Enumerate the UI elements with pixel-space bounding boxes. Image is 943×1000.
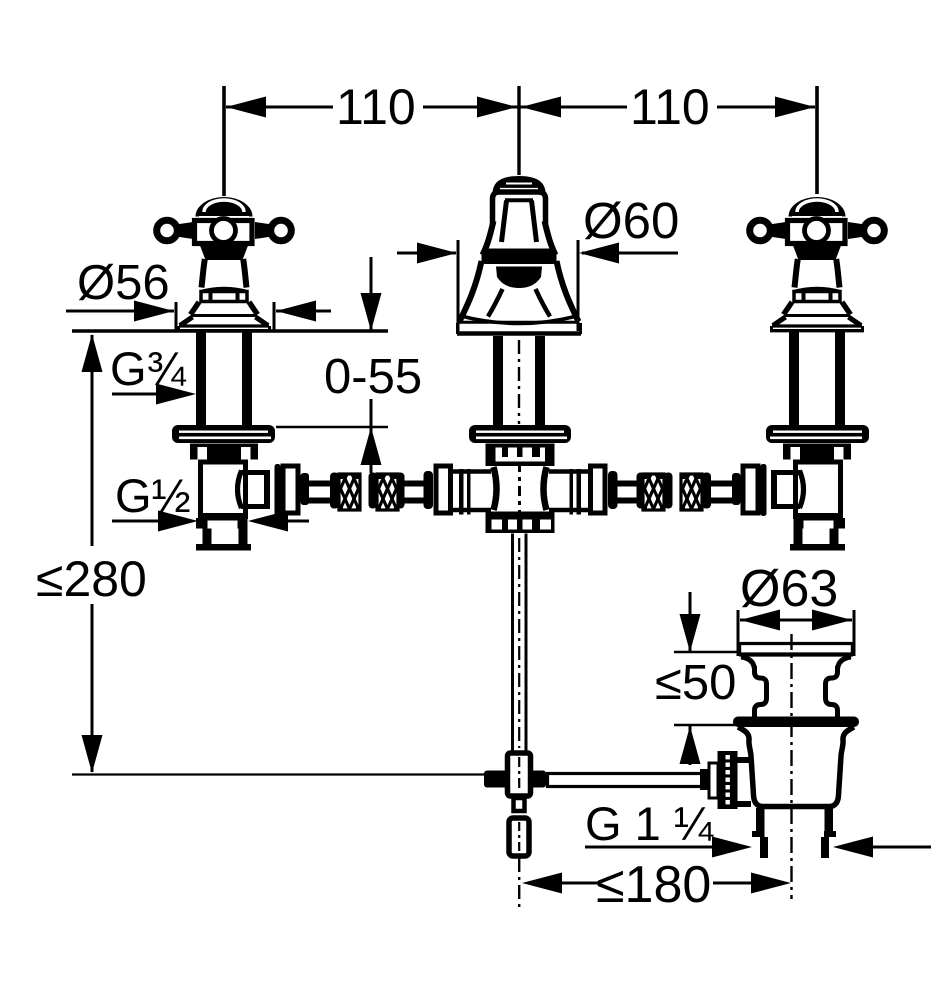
deck line [72, 329, 388, 333]
arrowheads 60 [417, 243, 457, 264]
lever bar [548, 774, 715, 787]
arrowheads 63 [740, 610, 780, 631]
arrowheads G1 1/4 [712, 837, 752, 858]
left handle (cross handle) [157, 197, 292, 331]
spout base [461, 316, 577, 324]
waste shoulder left [741, 657, 755, 669]
dimension 110 right: extension line [815, 86, 819, 194]
dimension G1 1/4 line [585, 846, 716, 849]
waste lower body [738, 727, 854, 807]
lever bar end [700, 769, 714, 790]
arrowheads 280 [82, 334, 103, 372]
waste upper body left profile [755, 666, 767, 718]
spout bell right [545, 221, 556, 255]
spout shank centre line [518, 340, 520, 424]
pop-up rod link [514, 798, 525, 811]
tee body sides [494, 467, 497, 510]
tee mounting nut [486, 444, 555, 458]
waste tailpipe [756, 808, 765, 837]
svg-text:Ø60: Ø60 [583, 192, 679, 249]
dimension 110 right: line [519, 106, 627, 109]
svg-text:110: 110 [630, 79, 710, 135]
right valve body with shank and supply hose (mirrored) [591, 331, 870, 551]
waste shoulder right [838, 657, 852, 669]
arrowhead 110 right [775, 97, 815, 118]
right handle (cross handle) [750, 197, 885, 331]
dimension 110 left: extension line [222, 86, 226, 196]
arrowheads 110 centre [477, 97, 517, 118]
svg-text:110: 110 [336, 79, 416, 135]
dimension G1/2 arrow lines [112, 520, 163, 523]
arrowheads G1/2 [158, 511, 198, 532]
arrowheads 180 [522, 873, 562, 894]
lever bracket [709, 763, 718, 798]
tee mounting flange [469, 425, 571, 443]
svg-text:G 1 ¼: G 1 ¼ [585, 797, 714, 850]
arrowheads 0-55 [361, 293, 382, 331]
spout bell inner lines [488, 289, 503, 317]
pop-up rod lower knob [509, 818, 529, 856]
svg-text:0-55: 0-55 [324, 350, 422, 404]
dimension 110 left: line [226, 106, 333, 109]
tee right port [549, 469, 588, 474]
dimension 50 line [689, 592, 692, 651]
tee left port [452, 469, 491, 474]
svg-text:≤50: ≤50 [655, 656, 736, 710]
pop-up rod centre line [518, 858, 520, 912]
svg-text:G¾: G¾ [110, 342, 187, 395]
svg-text:G½: G½ [115, 469, 191, 522]
arrowhead 110 left [226, 97, 266, 118]
dimension 180 line [558, 882, 600, 885]
tee bottom nut [486, 512, 555, 534]
svg-text:Ø63: Ø63 [740, 560, 838, 618]
dimension G3/4 arrow line [112, 393, 170, 396]
svg-text:Ø56: Ø56 [77, 256, 170, 310]
arrowhead G3/4 [156, 384, 196, 405]
dimension 110/110: centre extension line [517, 86, 520, 175]
waste plug flange [740, 642, 852, 645]
spout outlet band [482, 249, 557, 265]
pop-up rod coupler [508, 753, 531, 796]
dimension 63 line [740, 619, 852, 622]
dimension 280 line [91, 335, 94, 546]
spout aerator [496, 267, 542, 289]
spout shank walls [493, 336, 503, 425]
spout collar [493, 192, 546, 226]
lever clamp [484, 771, 546, 788]
waste washer [733, 717, 859, 728]
coupling stubs [737, 757, 751, 763]
svg-text:≤180: ≤180 [596, 856, 711, 914]
spout cap [493, 176, 546, 194]
arrowheads 50 [680, 614, 701, 652]
spout bell left [483, 221, 494, 255]
lever serrated coupling [718, 751, 738, 809]
svg-text:≤280: ≤280 [36, 551, 147, 607]
spout cartridge housing [502, 201, 537, 243]
left valve body with shank and supply hose [172, 331, 451, 551]
waste upper body right profile [826, 666, 838, 718]
dimension 0-55 line [370, 257, 373, 330]
tee centre line [518, 462, 521, 517]
pop-up rod tube [511, 534, 514, 752]
waste centre line [790, 634, 792, 899]
dimension 60 line [397, 252, 456, 255]
dimension 56 line [66, 310, 174, 313]
arrowheads 56 [134, 301, 174, 322]
tee body top [494, 462, 545, 467]
datum line bottom [72, 773, 490, 775]
